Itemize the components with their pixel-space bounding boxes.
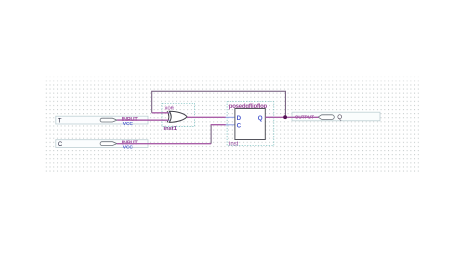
svg-text:Q: Q <box>337 114 342 121</box>
svg-text:VCC: VCC <box>123 121 134 127</box>
svg-text:inst1: inst1 <box>164 126 178 132</box>
svg-text:T: T <box>58 119 62 125</box>
svg-text:C: C <box>237 122 242 129</box>
svg-text:VCC: VCC <box>123 144 134 150</box>
svg-text:XOR: XOR <box>165 105 175 110</box>
svg-text:Q: Q <box>258 115 263 122</box>
svg-text:C: C <box>58 142 63 148</box>
svg-text:D: D <box>237 115 242 122</box>
svg-text:inst: inst <box>229 141 239 147</box>
